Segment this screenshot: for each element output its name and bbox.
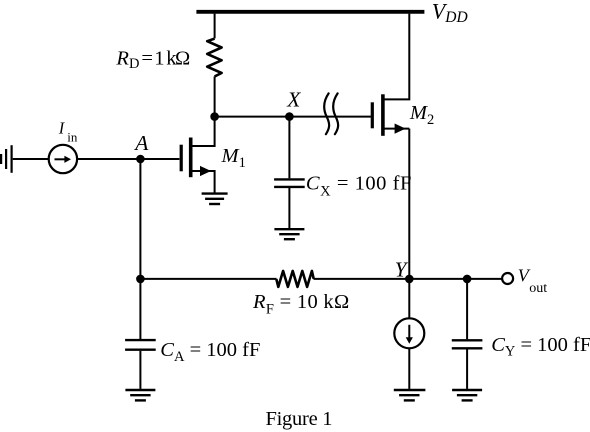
capacitor CA — [125, 339, 156, 341]
wire Iin to node A and M1 gate — [77, 158, 179, 160]
transistor M2 gate bar — [371, 102, 374, 128]
wire rail to RD — [214, 14, 216, 39]
current source Iin arrow — [55, 158, 66, 160]
transistor M1 source stub — [192, 171, 214, 193]
ground under CA — [125, 389, 155, 391]
transistor M1 gate bar — [180, 145, 183, 172]
ground under current source — [394, 389, 426, 391]
wire RF to node Y — [314, 278, 410, 280]
break symbol (double squiggle) on gate wire — [324, 93, 329, 134]
capacitor CY wire from output node — [466, 279, 468, 339]
wire node Y to output node — [409, 278, 467, 280]
tail current source arrow — [408, 325, 410, 338]
svg-text:A: A — [133, 131, 149, 155]
wire M2 source down to node Y — [408, 129, 410, 279]
tail current source circle — [394, 318, 424, 348]
wire CA to ground — [139, 351, 141, 389]
wire current source to ground — [408, 348, 410, 389]
wire node X to M2 gate — [289, 116, 371, 118]
input ground (rotated) — [0, 154, 2, 164]
node Y — [405, 275, 414, 284]
transistor M2 drain wire to rail — [384, 14, 409, 100]
svg-text:X: X — [286, 88, 301, 112]
current source Iin circle — [49, 145, 77, 173]
transistor M1 channel bar — [189, 138, 193, 178]
capacitor CA wire from feedback node — [139, 279, 141, 339]
capacitor CX wire from node X — [288, 117, 290, 179]
capacitor CY — [452, 339, 483, 341]
wire ground to Iin source — [13, 158, 49, 160]
transistor M1 source arrow — [200, 166, 211, 176]
svg-text:Figure 1: Figure 1 — [266, 408, 333, 430]
resistor RF — [276, 271, 313, 287]
wire node Y down to tail current source — [408, 279, 410, 319]
wire RD to drain node — [214, 76, 216, 116]
wire drain node to node X — [215, 116, 290, 118]
wire node A down to feedback node — [139, 159, 141, 279]
VDD supply rail — [196, 10, 424, 14]
wire output node to terminal — [467, 278, 502, 280]
wire CX to ground — [288, 188, 290, 228]
node X — [285, 112, 294, 121]
transistor M1 drain wire to node — [192, 117, 214, 146]
open terminal Vout — [502, 273, 513, 284]
node A — [136, 155, 145, 164]
feedback node — [136, 275, 145, 284]
resistor RD — [207, 39, 221, 77]
ground under CX — [274, 228, 304, 230]
transistor M2 source arrow — [395, 124, 406, 134]
node at M1 drain — [210, 112, 219, 121]
wire feedback node to RF — [140, 278, 276, 280]
svg-text:RD=1kΩ: RD=1kΩ — [115, 47, 190, 71]
capacitor CX — [274, 178, 305, 180]
wire CY to ground — [466, 349, 468, 389]
output node — [463, 275, 472, 284]
ground under M1 — [202, 192, 228, 194]
transistor M2 channel bar — [381, 94, 385, 136]
ground under CY — [452, 389, 482, 391]
transistor M2 source stub — [384, 128, 409, 130]
